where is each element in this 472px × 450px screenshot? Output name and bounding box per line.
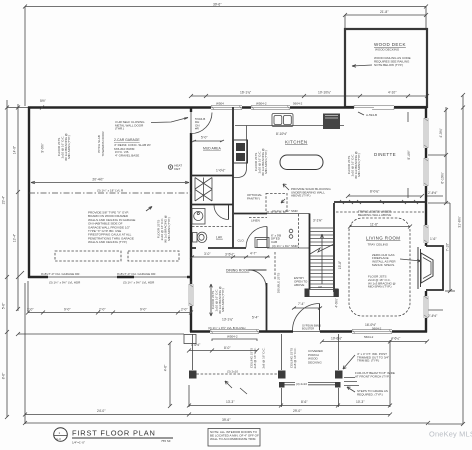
porch setback dim line xyxy=(169,343,171,406)
window W504 on top wall xyxy=(211,105,242,110)
garage beam line (3) 1 3/4 x 18 LVL R xyxy=(29,192,191,194)
svg-text:W504: W504 xyxy=(216,101,224,105)
wood deck outline xyxy=(345,29,427,107)
svg-text:16'-1¾": 16'-1¾" xyxy=(240,90,252,94)
svg-text:2'-4½": 2'-4½" xyxy=(428,314,438,318)
fireplace firebox xyxy=(421,253,433,283)
front window W504-2 xyxy=(210,329,259,334)
svg-text:WOOD DECKING: WOOD DECKING xyxy=(375,48,400,52)
svg-text:ZERO-CLR GASFIREPLACEINSTALL A: ZERO-CLR GASFIREPLACEINSTALL AS PERMANUF… xyxy=(372,253,396,267)
svg-text:UP: UP xyxy=(318,285,322,289)
svg-text:MID-SPAN (TYP.): MID-SPAN (TYP.) xyxy=(264,150,268,174)
porch left edge xyxy=(192,334,194,370)
heat detector xyxy=(168,165,172,169)
stair bottom landing xyxy=(306,290,339,297)
svg-text:5604-2: 5604-2 xyxy=(293,101,303,105)
kitchen window on top wall xyxy=(251,105,290,110)
svg-text:5'-4": 5'-4" xyxy=(252,316,259,320)
range xyxy=(234,140,248,163)
svg-text:A-594-B: A-594-B xyxy=(366,113,377,117)
left inner dimension line xyxy=(16,104,24,311)
porch steps xyxy=(344,378,359,386)
hall-dining wall xyxy=(266,283,268,331)
porch column 1 xyxy=(189,371,197,379)
deck top dimension line 21'-8" xyxy=(343,7,428,29)
svg-text:2'-0": 2'-0" xyxy=(99,308,106,312)
open to above dashed edge xyxy=(298,214,300,248)
svg-text:(3) 1¾" x 9½" LVL B FLUSH: (3) 1¾" x 9½" LVL B FLUSH xyxy=(208,326,245,330)
stair right wall xyxy=(333,203,335,292)
svg-text:2'-0": 2'-0" xyxy=(181,308,188,312)
deck note leader arrow xyxy=(352,65,372,66)
svg-text:TRAY CEILING: TRAY CEILING xyxy=(368,242,389,246)
svg-text:9'x8'x7'-0" OH. GARAGE DR.: 9'x8'x7'-0" OH. GARAGE DR. xyxy=(41,272,80,276)
svg-text:15'-8": 15'-8" xyxy=(338,260,342,269)
bearing wall between dinette and living xyxy=(334,201,427,203)
svg-text:FIRST FLOOR PLAN: FIRST FLOOR PLAN xyxy=(72,429,156,438)
porch beam dashed xyxy=(197,373,279,375)
garage metal door swing xyxy=(191,113,212,134)
svg-text:39'-6": 39'-6" xyxy=(222,418,231,422)
svg-text:4'-10": 4'-10" xyxy=(388,90,397,94)
kitchen left wall xyxy=(232,107,234,248)
right outer dimension line 31'-8 3/4" xyxy=(428,93,465,426)
svg-text:FUR-OUT BEAM TO 8" WIDEAT FRON: FUR-OUT BEAM TO 8" WIDEAT FRONT PORCH (T… xyxy=(355,371,395,378)
svg-text:2-CAR GARAGE: 2-CAR GARAGE xyxy=(114,138,140,142)
svg-text:13'-4": 13'-4" xyxy=(13,233,17,242)
svg-text:8'-0": 8'-0" xyxy=(224,346,231,350)
bottom dimension line 24'-0" xyxy=(23,283,191,424)
svg-text:4'-0¾": 4'-0¾" xyxy=(439,128,443,138)
overall top dimension line 39'-6" xyxy=(23,5,428,107)
hall cabinet xyxy=(255,238,269,248)
svg-text:6'-10¾": 6'-10¾" xyxy=(441,172,445,184)
garage front stoop xyxy=(184,335,196,344)
svg-text:DINETTE: DINETTE xyxy=(374,152,396,157)
porch mid edge xyxy=(281,334,283,370)
svg-text:20'-4½": 20'-4½" xyxy=(92,178,104,182)
svg-text:7'-4": 7'-4" xyxy=(298,302,305,306)
svg-text:W504-2: W504-2 xyxy=(256,101,267,105)
svg-text:MID-SPAN (TYP.): MID-SPAN (TYP.) xyxy=(221,288,225,312)
garage front wall xyxy=(28,276,192,278)
svg-text:2x8 @ 16" O.C.: 2x8 @ 16" O.C. xyxy=(262,347,266,368)
svg-text:DINING ROOM: DINING ROOM xyxy=(226,269,250,273)
stair treads xyxy=(310,228,334,288)
porch column 3 xyxy=(335,371,343,379)
svg-text:39'-6": 39'-6" xyxy=(213,2,222,6)
svg-text:2x8 @ 16" O.C.: 2x8 @ 16" O.C. xyxy=(293,347,297,368)
svg-text:(3) 1¾" x 9¼" LVL HDR: (3) 1¾" x 9¼" LVL HDR xyxy=(49,281,81,285)
svg-text:2'-4½": 2'-4½" xyxy=(428,191,438,195)
svg-text:9'-4½": 9'-4½" xyxy=(407,150,411,160)
svg-text:LINEN: LINEN xyxy=(251,219,260,223)
fireplace bump-out xyxy=(426,246,443,290)
svg-text:MID-SPAN (TYP.): MID-SPAN (TYP.) xyxy=(67,135,71,159)
porch right edge xyxy=(338,334,340,370)
kitchen counter edge xyxy=(235,125,344,127)
svg-text:9'-0⅝": 9'-0⅝" xyxy=(41,143,45,153)
lav bottom wall xyxy=(191,247,246,249)
living room right wall window upper xyxy=(424,225,429,243)
svg-text:CLO.: CLO. xyxy=(238,239,245,243)
garage right wall xyxy=(190,107,192,333)
garage door opening lines xyxy=(48,276,117,278)
svg-text:14'-0": 14'-0" xyxy=(13,145,17,154)
svg-text:4'-0¼": 4'-0¼" xyxy=(335,298,339,308)
svg-text:16'-0½": 16'-0½" xyxy=(365,323,377,327)
svg-text:10'-10¾": 10'-10¾" xyxy=(318,90,332,94)
kitchen sink xyxy=(272,114,293,127)
svg-text:NOTE: ALL INTERIOR DOORS TOBE: NOTE: ALL INTERIOR DOORS TOBE LOCATED A … xyxy=(210,430,259,441)
garage metal door opening line xyxy=(190,112,192,133)
optional pantry dashed xyxy=(266,194,287,213)
svg-text:21'-8": 21'-8" xyxy=(380,10,389,14)
lav toilet xyxy=(193,233,198,243)
svg-text:13'-3": 13'-3" xyxy=(226,400,235,404)
dining window on garage wall xyxy=(189,284,194,306)
svg-text:DET: DET xyxy=(174,167,180,171)
svg-text:MID-SPAN (TYP.): MID-SPAN (TYP.) xyxy=(357,153,361,177)
svg-text:5½": 5½" xyxy=(40,99,47,103)
svg-text:23'-4": 23'-4" xyxy=(2,195,6,204)
svg-text:A-3: A-3 xyxy=(56,437,61,441)
lav vanity xyxy=(192,209,205,225)
svg-text:5604-2: 5604-2 xyxy=(372,327,382,331)
stair up arrow xyxy=(321,234,323,284)
hall closet door swing xyxy=(246,227,267,248)
svg-text:8'-6": 8'-6" xyxy=(301,400,308,404)
bottom dimension line 29'-0" xyxy=(189,413,392,417)
bottom overall dimension line 39'-6" xyxy=(23,421,430,425)
title bubble xyxy=(54,428,68,442)
svg-text:4'-6¼": 4'-6¼" xyxy=(391,336,401,340)
hall dims under lav xyxy=(192,256,270,258)
svg-text:3'-5½": 3'-5½" xyxy=(225,253,235,257)
svg-text:TRIPLE JOISTS UNDERBEARING WAL: TRIPLE JOISTS UNDERBEARING WALL ABOVE xyxy=(358,210,392,217)
svg-text:5604-2: 5604-2 xyxy=(364,335,374,339)
driveway edge line xyxy=(18,333,184,335)
svg-text:9'x8'x7'-0" OH. GARAGE DR.: 9'x8'x7'-0" OH. GARAGE DR. xyxy=(117,272,156,276)
svg-text:10'-3": 10'-3" xyxy=(356,400,365,404)
garage front dimension line xyxy=(28,312,191,314)
svg-text:1'-0½": 1'-0½" xyxy=(216,169,226,173)
svg-text:W504-2: W504-2 xyxy=(227,335,238,339)
svg-text:(3) 2x10: (3) 2x10 xyxy=(296,382,307,386)
top exterior wall xyxy=(28,106,427,108)
svg-text:13'-1¾": 13'-1¾" xyxy=(222,318,234,322)
svg-text:8'-10½": 8'-10½" xyxy=(276,132,288,136)
svg-text:MID-SPAN (TYP.): MID-SPAN (TYP.) xyxy=(167,217,171,241)
svg-text:WOOD DECK: WOOD DECK xyxy=(374,42,406,47)
left exterior wall xyxy=(28,107,30,279)
svg-text:8'-0¾": 8'-0¾" xyxy=(370,190,380,194)
front exterior wall xyxy=(190,330,427,332)
right living dimension line 7'-10" xyxy=(445,203,455,293)
svg-text:(3) 1¾" x 9¼" SMR: (3) 1¾" x 9¼" SMR xyxy=(272,244,298,248)
living room right wall window lower xyxy=(424,296,429,318)
gyp note leader xyxy=(146,207,152,212)
porch front beam xyxy=(281,383,338,385)
svg-text:755 SF: 755 SF xyxy=(161,439,171,443)
electrical symbols xyxy=(289,229,293,233)
svg-text:8'-6": 8'-6" xyxy=(2,372,6,379)
svg-text:7'-10": 7'-10" xyxy=(446,242,450,251)
svg-text:9'-0": 9'-0" xyxy=(140,308,147,312)
porch column 2 xyxy=(278,371,286,379)
right exterior wall xyxy=(425,107,427,333)
front window 5604-2 xyxy=(352,329,392,334)
svg-text:DOUBLE JSTS: DOUBLE JSTS xyxy=(277,273,281,294)
mud bottom wall xyxy=(191,175,233,177)
bottom porch dimension line xyxy=(187,340,392,408)
svg-text:3'-0": 3'-0" xyxy=(204,252,211,256)
fireplace leader arrow xyxy=(400,259,421,261)
deck sliding door A-594-B on top wall xyxy=(354,105,394,110)
hall top wall xyxy=(234,213,267,215)
dinette right wall windows xyxy=(424,118,429,148)
tray ceiling dashed outline xyxy=(349,218,410,316)
porch leader arrows xyxy=(225,381,232,388)
front window bracket xyxy=(212,339,257,341)
svg-text:MUD AREA: MUD AREA xyxy=(203,147,221,151)
svg-text:5'-6": 5'-6" xyxy=(2,302,6,309)
front door leaf and swing xyxy=(319,304,321,331)
svg-text:(3) 2x10: (3) 2x10 xyxy=(227,370,238,374)
lav door swing xyxy=(214,205,229,220)
svg-text:(3) 1¾" x 9¼" SMR: (3) 1¾" x 9¼" SMR xyxy=(272,209,298,213)
garage width dim 20'-4 1/2" xyxy=(31,182,189,184)
svg-text:24'-0": 24'-0" xyxy=(97,409,106,413)
lav shelf dashed xyxy=(192,226,232,228)
svg-text:(3) 1¾" x 9¼" LVL HDR: (3) 1¾" x 9¼" LVL HDR xyxy=(123,281,155,285)
svg-text:1'-6½": 1'-6½" xyxy=(191,343,201,347)
svg-text:4'-7": 4'-7" xyxy=(250,252,257,256)
stair left wall xyxy=(309,214,311,290)
garage overhead door dashed track 2 xyxy=(128,251,179,261)
svg-text:10'-6½": 10'-6½" xyxy=(331,336,343,340)
stair break line xyxy=(310,244,334,254)
svg-text:TOWARDS DOOR: TOWARDS DOOR xyxy=(101,131,105,157)
svg-text:OneKey MLS: OneKey MLS xyxy=(429,430,472,439)
svg-text:KITCHEN: KITCHEN xyxy=(285,140,308,145)
closet bottom wall xyxy=(191,204,233,206)
interior doors note box xyxy=(208,429,260,447)
svg-text:11'-6": 11'-6" xyxy=(370,223,379,227)
svg-text:29'-0": 29'-0" xyxy=(293,409,302,413)
house top dimension line xyxy=(189,94,429,98)
title underline xyxy=(72,437,173,439)
hall door swing xyxy=(249,270,266,287)
svg-text:LAV.: LAV. xyxy=(216,236,223,240)
entry dashed line xyxy=(274,252,276,280)
front door opening xyxy=(293,329,320,334)
right dinette dimension line xyxy=(428,107,450,205)
left outer dimension line xyxy=(5,100,28,419)
refrigerator xyxy=(323,114,340,130)
svg-text:4'-6": 4'-6" xyxy=(164,364,168,371)
garage overhead door dashed track 1 xyxy=(55,251,121,261)
svg-text:5'-0": 5'-0" xyxy=(201,136,208,140)
svg-text:(3) 1¾" x 18" LVL R: (3) 1¾" x 18" LVL R xyxy=(97,189,124,193)
svg-text:LIVING ROOM: LIVING ROOM xyxy=(366,235,400,240)
svg-text:3'-1⅝": 3'-1⅝" xyxy=(313,219,323,223)
closet bifold chevrons xyxy=(195,178,212,202)
kitchen island xyxy=(280,155,323,170)
svg-text:1'-6": 1'-6" xyxy=(430,237,437,241)
svg-text:9'-0": 9'-0" xyxy=(64,308,71,312)
svg-text:31'-8¾": 31'-8¾" xyxy=(458,216,462,228)
svg-text:1/4"=1'-0": 1/4"=1'-0" xyxy=(72,441,85,445)
